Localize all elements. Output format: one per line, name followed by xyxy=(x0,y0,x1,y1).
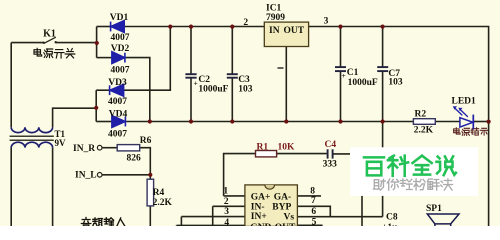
svg-text:SP1: SP1 xyxy=(426,204,442,214)
svg-text:9V: 9V xyxy=(55,138,67,148)
svg-text:+: + xyxy=(342,71,346,80)
svg-text:5: 5 xyxy=(312,218,317,226)
svg-text:2: 2 xyxy=(224,197,229,207)
svg-text:4007: 4007 xyxy=(111,66,130,76)
svg-text:10K: 10K xyxy=(278,143,296,153)
svg-text:4007: 4007 xyxy=(108,129,127,139)
svg-text:OUT: OUT xyxy=(284,26,305,36)
svg-text:OUT: OUT xyxy=(275,223,296,226)
svg-text:IN: IN xyxy=(269,26,280,36)
svg-text:Vs: Vs xyxy=(284,212,295,222)
svg-text:8: 8 xyxy=(310,187,315,197)
svg-text:C1: C1 xyxy=(347,68,359,78)
svg-text:103: 103 xyxy=(238,84,253,94)
svg-text:LED1: LED1 xyxy=(452,97,477,107)
svg-text:R1: R1 xyxy=(257,143,269,153)
svg-text:C4: C4 xyxy=(325,140,337,150)
svg-text:1: 1 xyxy=(223,187,228,197)
svg-text:VD1: VD1 xyxy=(110,13,129,23)
svg-text:R6: R6 xyxy=(140,136,152,146)
svg-text:6: 6 xyxy=(311,207,316,217)
svg-text:103: 103 xyxy=(388,78,403,88)
svg-text:C2: C2 xyxy=(198,75,210,85)
svg-text:1000uF: 1000uF xyxy=(198,85,228,95)
svg-text:IN-: IN- xyxy=(251,202,265,212)
svg-text:R4: R4 xyxy=(153,188,165,198)
svg-text:K1: K1 xyxy=(43,29,56,40)
svg-text:826: 826 xyxy=(127,154,142,164)
svg-text:+1u: +1u xyxy=(382,223,398,226)
svg-text:3: 3 xyxy=(224,207,229,217)
svg-text:4007: 4007 xyxy=(108,97,127,107)
svg-text:1000uF: 1000uF xyxy=(348,78,378,88)
svg-text:7: 7 xyxy=(311,196,316,206)
svg-text:4: 4 xyxy=(224,218,229,226)
svg-text:VD4: VD4 xyxy=(109,110,128,120)
svg-text:IC1: IC1 xyxy=(266,4,282,14)
svg-text:BYP: BYP xyxy=(272,202,291,212)
svg-text:4007: 4007 xyxy=(111,33,130,43)
svg-text:R2: R2 xyxy=(415,110,427,120)
svg-text:333: 333 xyxy=(323,159,338,169)
svg-text:GND: GND xyxy=(250,223,271,226)
svg-text:IN+: IN+ xyxy=(251,212,267,222)
svg-text:C8: C8 xyxy=(386,213,398,223)
svg-text:VD2: VD2 xyxy=(111,44,130,54)
svg-text:7909: 7909 xyxy=(266,13,285,23)
svg-text:VD3: VD3 xyxy=(108,78,127,88)
svg-text:2.2K: 2.2K xyxy=(153,198,173,208)
svg-text:3: 3 xyxy=(324,17,329,27)
svg-text:+: + xyxy=(194,79,198,88)
svg-text:GA-: GA- xyxy=(274,192,291,202)
svg-text:GA+: GA+ xyxy=(251,192,271,202)
svg-text:2.2K: 2.2K xyxy=(414,126,434,136)
svg-text:IN_R: IN_R xyxy=(73,144,95,154)
svg-text:2: 2 xyxy=(243,18,248,28)
svg-text:IN_L: IN_L xyxy=(75,170,97,180)
